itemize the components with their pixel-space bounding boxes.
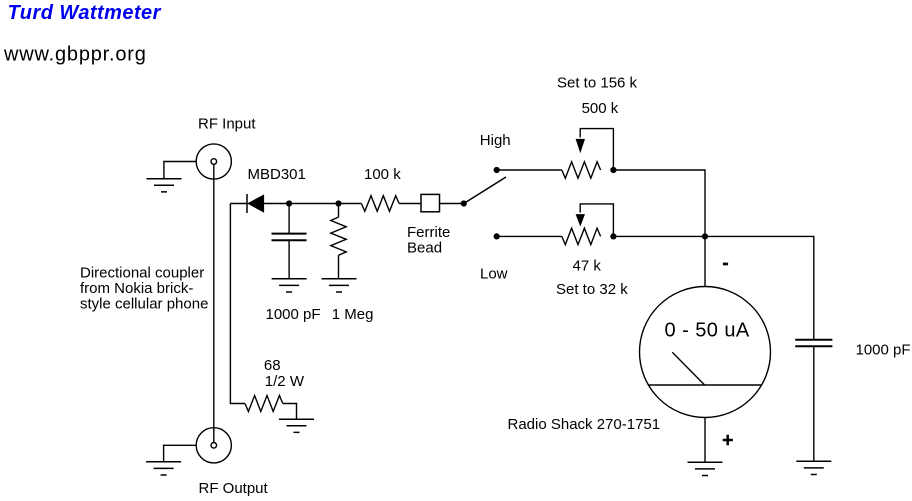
wire J1 shell to ground bbox=[164, 162, 196, 179]
wire High contact to pot VR1 bbox=[497, 169, 562, 171]
wire Low line to right capacitor bbox=[613, 236, 813, 339]
svg-text:Bead: Bead bbox=[407, 239, 442, 256]
svg-text:Directional coupler: Directional coupler bbox=[80, 264, 204, 281]
switch SW1 pole node bbox=[461, 200, 467, 206]
svg-text:100 k: 100 k bbox=[364, 166, 401, 183]
svg-text:Radio Shack 270-1751: Radio Shack 270-1751 bbox=[508, 416, 661, 433]
wire 68 ohm to ground bbox=[283, 404, 297, 420]
node dot VR1 right terminal bbox=[610, 167, 616, 173]
ground G4 (C1) bbox=[272, 279, 307, 292]
svg-text:Ferrite: Ferrite bbox=[407, 224, 450, 241]
VR2 wiper arrow bbox=[576, 204, 614, 237]
wire junction to meter bbox=[704, 236, 706, 286]
resistor R1 100 k bbox=[361, 196, 399, 212]
ground G5 (R2) bbox=[322, 279, 357, 292]
ground G3 (68 ohm) bbox=[279, 419, 314, 432]
svg-text:Low: Low bbox=[480, 265, 508, 282]
meter plus terminal mark bbox=[723, 435, 733, 446]
svg-text:47 k: 47 k bbox=[573, 258, 602, 275]
svg-text:0 - 50 uA: 0 - 50 uA bbox=[665, 319, 750, 341]
svg-text:1000 pF: 1000 pF bbox=[856, 342, 911, 359]
meter minus terminal mark bbox=[723, 263, 728, 266]
diode D1 MBD301 (cathode bar + filled triangle pointing left) bbox=[247, 194, 264, 213]
svg-text:Set to 156 k: Set to 156 k bbox=[557, 74, 638, 91]
node dot meter junction bbox=[702, 233, 708, 239]
connector J1 RF Input bbox=[196, 144, 231, 179]
node dot VR2 right terminal bbox=[610, 233, 616, 239]
wire coupled tap line down to 68 ohm bbox=[230, 204, 245, 404]
wire coupler main line J1 pin to J2 pin bbox=[213, 164, 215, 442]
resistor R2 1 Meg bbox=[331, 204, 346, 279]
ground G2 (RF Output shell) bbox=[146, 462, 181, 475]
potentiometer VR1 500 k element bbox=[562, 162, 601, 178]
ground G6 (meter) bbox=[688, 462, 723, 475]
wire diode cathode to 100k (through nodes) bbox=[264, 203, 362, 205]
connector J2 RF Output bbox=[196, 428, 231, 463]
resistor R4 68 ohm 1/2 W bbox=[245, 396, 283, 412]
svg-text:High: High bbox=[480, 132, 511, 149]
svg-text:style cellular phone: style cellular phone bbox=[80, 295, 208, 312]
node dot at R2 junction bbox=[335, 200, 341, 206]
wire 100k to ferrite bead bbox=[399, 203, 421, 205]
svg-text:from Nokia brick-: from Nokia brick- bbox=[80, 280, 193, 297]
potentiometer VR2 47 k element bbox=[562, 228, 601, 244]
svg-text:68: 68 bbox=[264, 357, 281, 374]
svg-text:MBD301: MBD301 bbox=[248, 166, 306, 183]
node dot at C1 junction bbox=[286, 200, 292, 206]
ground G1 (RF Input shell) bbox=[147, 179, 182, 192]
svg-text:RF Input: RF Input bbox=[198, 116, 256, 133]
switch contact node Low bbox=[494, 233, 500, 239]
VR1 wiper arrow bbox=[576, 129, 614, 170]
meter M1 0-50 uA bbox=[640, 287, 771, 418]
wire VR1 to meter branch bbox=[613, 170, 705, 236]
svg-text:1 Meg: 1 Meg bbox=[332, 306, 374, 323]
wire meter to ground bbox=[704, 418, 706, 463]
ground G7 (C2) bbox=[796, 461, 831, 474]
switch contact node High bbox=[494, 167, 500, 173]
svg-text:www.gbppr.org: www.gbppr.org bbox=[3, 44, 147, 66]
svg-text:Set to 32 k: Set to 32 k bbox=[556, 281, 628, 298]
wire tap to diode anode bbox=[230, 203, 247, 205]
svg-text:1/2 W: 1/2 W bbox=[265, 373, 305, 390]
svg-text:1000 pF: 1000 pF bbox=[266, 306, 321, 323]
wire J2 shell to ground bbox=[164, 445, 197, 462]
ferrite bead FB1 bbox=[421, 194, 440, 211]
wire Low contact to pot VR2 bbox=[497, 235, 562, 237]
capacitor C2 1000 pF (meter) bbox=[795, 340, 832, 462]
svg-text:RF Output: RF Output bbox=[199, 480, 269, 497]
wire bead to switch pole bbox=[440, 203, 464, 205]
switch SW1 arm bbox=[464, 177, 506, 204]
capacitor C1 1000 pF bbox=[272, 204, 307, 279]
svg-text:Turd Wattmeter: Turd Wattmeter bbox=[8, 2, 162, 24]
svg-text:500 k: 500 k bbox=[582, 100, 619, 117]
